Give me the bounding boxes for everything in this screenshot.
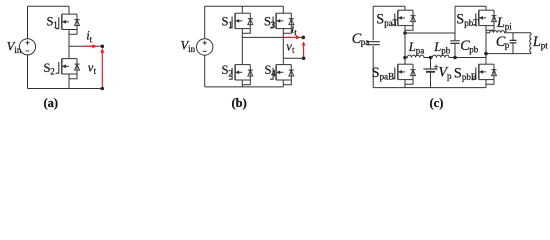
source Vp battery (c) — [430, 58, 432, 69]
wire: S1 drain lead (b) — [241, 6, 243, 13]
svg-text:pt: pt — [541, 41, 549, 51]
inductor Lpb (c) — [431, 55, 456, 57]
svg-text:pi: pi — [505, 21, 513, 31]
svg-text:L: L — [408, 40, 416, 54]
svg-text:2: 2 — [50, 66, 55, 76]
svg-text:2: 2 — [228, 69, 233, 79]
svg-text:(b): (b) — [232, 96, 247, 110]
svg-text:L: L — [532, 34, 541, 50]
transistor SpaT (c) — [392, 10, 416, 30]
wire: right leg (b) — [282, 29, 284, 65]
svg-text:paB: paB — [380, 72, 395, 82]
source Vin (a) — [19, 39, 35, 55]
svg-text:pa: pa — [416, 45, 425, 55]
wire: bottom rail (a) — [28, 88, 103, 90]
node: bottom right (a) — [101, 87, 105, 91]
wire: S1 source to S2 drain leg (a) — [68, 30, 70, 59]
svg-text:t: t — [292, 45, 295, 55]
svg-text:(a): (a) — [44, 96, 59, 110]
svg-text:S: S — [456, 11, 464, 27]
transistor S2 (b) — [229, 65, 253, 85]
wire: bottom rail (c) — [373, 87, 486, 89]
wire: bottom rail (b) — [205, 86, 284, 88]
wire: top rail (b) — [205, 5, 284, 7]
wire: Cpa bottom lead (c) — [372, 46, 374, 88]
svg-text:S: S — [376, 11, 384, 27]
wire: Vin top lead (b) — [204, 6, 206, 39]
inductor Lpi (c) — [486, 31, 531, 33]
wire: top rail (a) — [28, 5, 70, 7]
svg-text:t: t — [94, 66, 97, 76]
wire: SpaB source lead (c) — [404, 80, 406, 88]
transistor S3 (b) — [270, 13, 294, 33]
svg-text:L: L — [433, 40, 441, 54]
wire: output bottom (b) — [283, 57, 303, 59]
current arrow it (a) — [84, 45, 93, 47]
node: output (a) — [101, 45, 105, 49]
wire: S1 drain lead (a) — [68, 6, 70, 14]
transistor S1 (b) — [229, 13, 253, 33]
svg-text:3: 3 — [271, 20, 276, 30]
svg-text:4: 4 — [271, 69, 276, 79]
wire: pb leg (c) — [485, 26, 487, 65]
svg-text:in: in — [14, 45, 22, 55]
node: Cpb bottom (c) — [453, 56, 457, 60]
node: pb tank tap (c) — [484, 52, 488, 56]
source Vin (b) — [197, 39, 213, 55]
svg-text:p: p — [505, 40, 510, 50]
transistor S1 (a) — [56, 14, 80, 34]
transistor SpaB (c) — [392, 64, 416, 84]
wire: output top (b) — [242, 36, 303, 38]
wire: resonant rail to pb leg (c) — [455, 57, 486, 59]
wire: midpoint output (a) — [69, 45, 102, 47]
wire: tank bottom (c) — [486, 53, 531, 55]
wire: SpbT drain lead (c) — [485, 6, 487, 10]
wire: top rail right segment (c) — [455, 5, 486, 7]
svg-text:in: in — [188, 44, 196, 54]
node: Vp tap (c) — [429, 56, 433, 60]
node: output bottom (b) — [302, 56, 306, 60]
svg-text:t: t — [90, 35, 93, 45]
wire: Vin bottom lead (a) — [27, 55, 29, 89]
wire: S2 source lead (b) — [241, 80, 243, 87]
inductor Lpt (c) — [530, 33, 531, 54]
wire: left leg (b) — [241, 29, 243, 65]
wire: S3 drain lead (b) — [282, 6, 284, 13]
transistor SpbT (c) — [473, 10, 497, 30]
svg-text:pb: pb — [441, 45, 451, 55]
svg-text:paT: paT — [384, 18, 398, 28]
wire: Vin top lead (a) — [27, 6, 29, 38]
svg-text:S: S — [372, 65, 380, 81]
svg-text:L: L — [496, 15, 505, 31]
wire: SpbB source lead (c) — [485, 80, 487, 88]
node: pa resonant (c) — [403, 56, 407, 60]
node: output top (b) — [302, 36, 306, 40]
inductor Lpa (c) — [405, 55, 431, 57]
wire: S2 source lead (a) — [68, 74, 70, 89]
wire: S4 source lead (b) — [282, 80, 284, 87]
capacitor Cpt (c) — [512, 33, 514, 40]
svg-text:1: 1 — [228, 20, 233, 30]
svg-text:(c): (c) — [430, 96, 444, 110]
svg-text:pb: pb — [469, 44, 479, 54]
transistor SpbB (c) — [473, 64, 497, 84]
transistor S4 (b) — [270, 65, 294, 85]
wire: top rail left segment (c) — [373, 5, 405, 7]
svg-text:pbT: pbT — [464, 18, 479, 28]
wire: Cpb top link (c) — [405, 32, 455, 34]
svg-text:pbB: pbB — [462, 72, 477, 82]
svg-text:S: S — [454, 66, 462, 82]
voltage arrow vt (a) — [101, 52, 103, 87]
wire: Cpa top lead (c) — [372, 6, 374, 40]
wire: pa leg (c) — [404, 26, 406, 65]
current arrow it (b) — [285, 36, 296, 38]
capacitor Cpb (c) — [454, 33, 456, 40]
capacitor Cpa (c) — [367, 42, 380, 45]
svg-text:p: p — [447, 71, 452, 81]
wire: SpaT drain lead (c) — [404, 6, 406, 10]
svg-text:pa: pa — [361, 37, 370, 47]
node: pa mid (c) — [403, 31, 407, 35]
voltage arrow vt (b) — [303, 45, 305, 57]
svg-text:1: 1 — [53, 20, 58, 30]
transistor S2 (a) — [56, 59, 80, 79]
wire: Vin bottom lead (b) — [204, 55, 206, 87]
wire: Cpb top feed from rail (c) — [454, 6, 456, 33]
